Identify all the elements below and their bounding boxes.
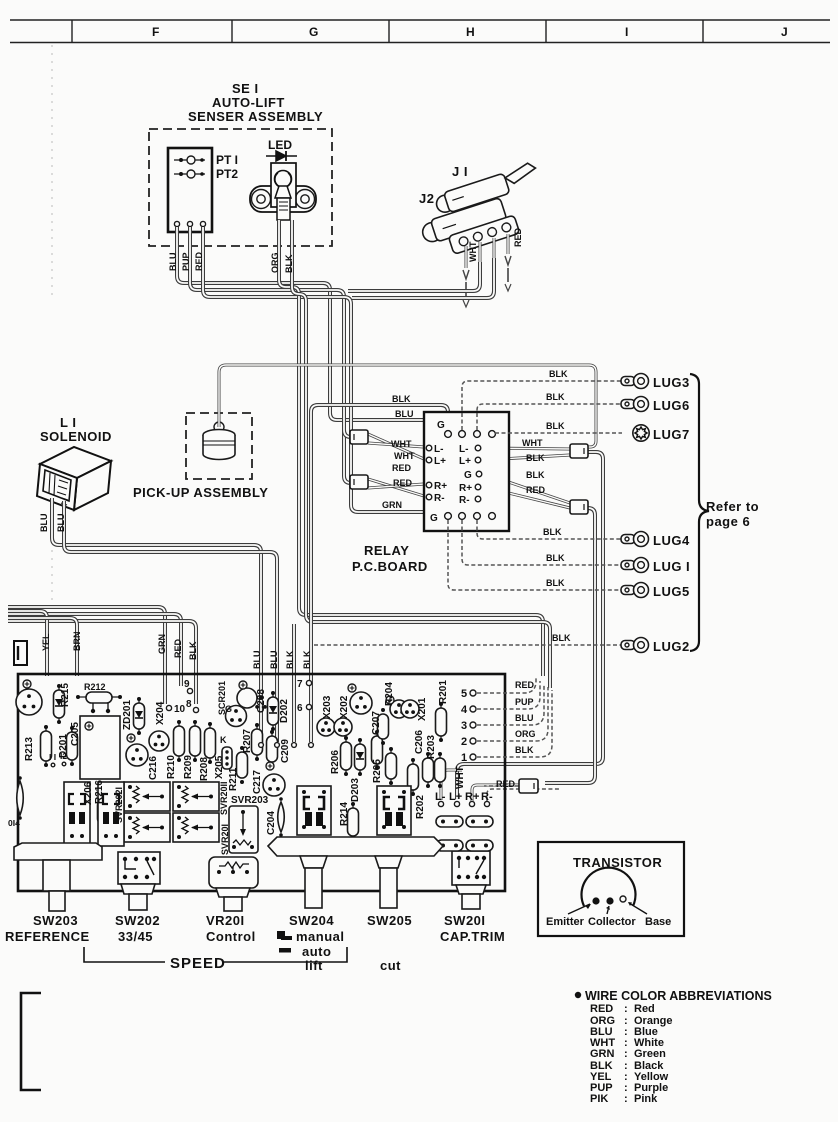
svg-text:L I: L I [60,415,76,430]
svg-text:C206: C206 [414,730,425,754]
svg-text:R213: R213 [24,737,35,761]
svg-text:F: F [152,25,159,39]
svg-text:RED: RED [515,680,535,690]
svg-text:SENSER ASSEMBLY: SENSER ASSEMBLY [188,109,323,124]
svg-text:1: 1 [461,752,467,764]
svg-text:3: 3 [461,720,467,732]
svg-text:BLK: BLK [549,369,568,379]
svg-text:I: I [625,25,628,39]
svg-text:J2: J2 [419,191,434,206]
svg-text:BLK: BLK [526,470,545,480]
svg-text:BLU: BLU [515,713,534,723]
svg-text:L-: L- [434,444,443,455]
svg-text:X206: X206 [83,781,94,805]
svg-text:J: J [781,25,788,39]
svg-text:RELAY: RELAY [364,543,409,558]
svg-text:R212: R212 [84,682,106,692]
svg-text:BLU: BLU [39,514,49,533]
svg-text:C205: C205 [70,722,81,746]
svg-text:C209: C209 [280,739,291,763]
svg-text:LUG4: LUG4 [653,533,690,548]
svg-text:WHT: WHT [468,241,478,262]
svg-text:R206: R206 [330,750,341,774]
svg-text:C207: C207 [371,711,382,735]
svg-text:WIRE COLOR ABBREVIATIONS: WIRE COLOR ABBREVIATIONS [585,989,772,1003]
svg-text:LED: LED [268,138,292,152]
svg-text:SW202: SW202 [115,913,160,928]
svg-text:BLK: BLK [546,553,565,563]
svg-text:BLU: BLU [269,651,279,670]
svg-text:C208: C208 [256,689,267,713]
svg-text:R-: R- [459,495,470,506]
svg-text:BLK: BLK [543,527,562,537]
svg-text:K: K [220,735,227,745]
svg-text:H: H [466,25,475,39]
svg-text:BLK: BLK [546,421,565,431]
svg-text:LUG5: LUG5 [653,584,690,599]
svg-text:WHT: WHT [455,766,466,789]
svg-text:R-: R- [434,493,445,504]
svg-text:BLK: BLK [526,453,545,463]
svg-text:P.C.BOARD: P.C.BOARD [352,559,428,574]
svg-text:RED: RED [526,485,546,495]
svg-text:10: 10 [174,704,186,715]
svg-text:C217: C217 [252,770,263,794]
svg-text:BLK: BLK [552,633,571,643]
svg-text:PUP: PUP [181,252,191,271]
svg-text:PT2: PT2 [216,167,238,181]
svg-text:R201: R201 [438,680,449,704]
svg-text:BLU: BLU [168,253,178,272]
svg-text:BRN: BRN [72,632,82,652]
svg-text:BLK: BLK [392,394,411,404]
svg-text:R204: R204 [384,682,395,706]
svg-text:33/45: 33/45 [118,929,153,944]
svg-text:6: 6 [297,703,303,714]
svg-text:LUG7: LUG7 [653,427,690,442]
svg-text:BLU: BLU [395,409,414,419]
svg-text:X204: X204 [155,701,166,725]
svg-text:cut: cut [380,958,401,973]
svg-text:7: 7 [297,679,303,690]
svg-text:RED: RED [173,638,183,658]
svg-text:SOLENOID: SOLENOID [40,429,112,444]
svg-text:SW205: SW205 [367,913,412,928]
svg-text:R208: R208 [199,757,210,781]
svg-text:RED: RED [392,463,412,473]
svg-text:Collector: Collector [588,916,636,928]
svg-text:BLK: BLK [546,392,565,402]
svg-text:X203: X203 [322,695,333,719]
svg-text:R202: R202 [415,795,426,819]
svg-text:5: 5 [461,688,467,700]
svg-text:ORG: ORG [515,729,536,739]
svg-text:Refer to: Refer to [706,499,759,514]
svg-text:BLK: BLK [302,650,312,669]
svg-text:WHT: WHT [522,438,543,448]
svg-text:R207: R207 [242,729,253,753]
svg-text:4: 4 [461,704,468,716]
svg-text:R211: R211 [228,767,239,791]
svg-text::: : [624,1093,628,1105]
svg-text:R216: R216 [94,780,105,804]
svg-text:8: 8 [186,699,192,710]
svg-text:LUG6: LUG6 [653,398,690,413]
svg-text:BLK: BLK [546,578,565,588]
svg-text:LUG3: LUG3 [653,375,690,390]
svg-text:YEL: YEL [41,633,51,651]
svg-text:SVR202I: SVR202I [114,787,124,823]
svg-text:LUG I: LUG I [653,559,690,574]
svg-text:Base: Base [645,916,671,928]
svg-text:page 6: page 6 [706,514,750,529]
svg-text:PIK: PIK [590,1093,608,1105]
svg-text:BLK: BLK [515,745,534,755]
svg-text:G: G [309,25,318,39]
svg-text:BLK: BLK [284,254,294,273]
svg-text:R+: R+ [434,481,447,492]
svg-text:R214: R214 [339,802,350,826]
svg-text:L-: L- [459,444,468,455]
svg-text:R215: R215 [60,683,71,707]
svg-text:CAP.TRIM: CAP.TRIM [440,929,505,944]
svg-text:ZD201: ZD201 [122,700,133,730]
svg-text:PT I: PT I [216,153,238,167]
svg-text:VR20I: VR20I [206,913,245,928]
svg-text:0I4: 0I4 [8,818,20,828]
svg-text:GRN: GRN [590,1048,615,1060]
svg-text:R+: R+ [459,483,472,494]
svg-text:SW204: SW204 [289,913,334,928]
svg-text:SW203: SW203 [33,913,78,928]
svg-text:Emitter: Emitter [546,916,585,928]
svg-text:X202: X202 [339,695,350,719]
svg-text:RED: RED [513,227,523,247]
svg-text:G: G [437,420,445,431]
svg-text:BLK: BLK [188,641,198,660]
svg-text:Control: Control [206,929,256,944]
svg-text:ORG: ORG [270,252,280,273]
svg-text:9: 9 [184,679,190,690]
svg-text:RED: RED [194,251,204,271]
svg-text:C216: C216 [148,756,159,780]
svg-text:Red: Red [634,1003,655,1015]
svg-text:G: G [464,470,472,481]
svg-text:R205: R205 [372,759,383,783]
svg-text:L+: L+ [434,456,446,467]
svg-text:BLU: BLU [252,651,262,670]
svg-text:RED: RED [590,1003,613,1015]
svg-text:WHT: WHT [391,439,412,449]
svg-text:SVR20I: SVR20I [220,824,230,855]
svg-text:J I: J I [452,164,468,179]
svg-text:R209: R209 [183,755,194,779]
svg-text:WHT: WHT [394,451,415,461]
svg-text:2: 2 [461,736,467,748]
svg-text:BLK: BLK [285,650,295,669]
svg-text:RED: RED [393,478,413,488]
svg-text:auto: auto [302,944,331,959]
svg-text:REFERENCE: REFERENCE [5,929,90,944]
svg-text:lift: lift [305,958,323,973]
svg-text:D202: D202 [279,699,290,723]
svg-text:G: G [430,513,438,524]
svg-text:G: G [225,704,232,714]
svg-text:PICK-UP ASSEMBLY: PICK-UP ASSEMBLY [133,485,268,500]
svg-text:SVR203: SVR203 [231,795,269,806]
svg-text:BLU: BLU [56,514,66,533]
svg-text::: : [624,1003,628,1015]
svg-text:PUP: PUP [515,697,534,707]
svg-text:I I: I I [49,752,56,762]
svg-text:C204: C204 [266,811,277,835]
svg-text:RED: RED [496,779,516,789]
svg-text::: : [624,1048,628,1060]
svg-text:R203: R203 [426,735,437,759]
svg-text:GRN: GRN [157,634,167,654]
svg-text:manual: manual [296,929,345,944]
svg-text:SE I: SE I [232,81,259,96]
svg-text:L+: L+ [459,456,471,467]
svg-text:Green: Green [634,1048,666,1060]
svg-text:SPEED: SPEED [170,955,226,972]
svg-text:I2: I2 [60,751,67,761]
svg-text:X201: X201 [417,697,428,721]
svg-text:GRN: GRN [382,500,402,510]
svg-text:Pink: Pink [634,1093,658,1105]
svg-text:R210: R210 [166,755,177,779]
svg-text:AUTO-LIFT: AUTO-LIFT [212,95,285,110]
svg-text:TRANSISTOR: TRANSISTOR [573,855,662,870]
svg-text:LUG2: LUG2 [653,639,690,654]
svg-text:D203: D203 [350,778,361,802]
svg-text:SW20I: SW20I [444,913,486,928]
